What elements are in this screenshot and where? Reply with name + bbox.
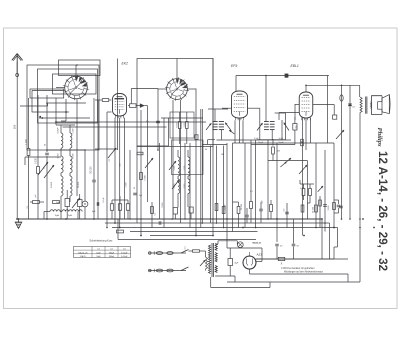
label C3 value [56,202,60,204]
resistor R16 top [301,139,304,146]
IF1 coils lower [178,176,190,208]
svg-text:50.000: 50.000 [177,122,179,128]
capacitor IF1 foot B [189,207,193,219]
capacitor C7 [156,121,160,123]
wire tie y140 [217,139,292,141]
svg-text:1M: 1M [221,154,224,156]
wire IF3 left [248,108,260,140]
wire cathode return y274 [250,274,349,282]
wire rail y219 [17,218,323,220]
capacitor C8 [293,117,297,145]
wire xfmr top to lamp [215,241,237,245]
IF3 trimmer arrows [257,123,289,131]
wire top right y85 [306,85,360,97]
shield box C [59,60,101,76]
svg-text:5.000: 5.000 [184,166,186,171]
resistor R10 [215,204,218,211]
resistor R12 [233,202,240,228]
capacitor C11 [285,212,289,214]
wire x66 [61,99,66,121]
svg-text:50μμF: 50μμF [279,142,284,144]
svg-text:0,1: 0,1 [352,107,355,109]
svg-text:5.000: 5.000 [145,175,147,181]
label misc 29 [109,159,111,162]
wire tie y160 [268,160,307,162]
resistor R13 [250,196,253,223]
power transformer primary [209,245,211,274]
wire S2 leads [158,59,196,90]
wire y146 tie [137,145,169,147]
label R25 [277,151,280,153]
label misc 9 [313,206,315,213]
label AZ1 [256,253,263,257]
wire rail y227 [112,227,338,229]
node ladder dots [39,111,67,123]
label misc 27 [35,194,37,198]
resistor R1 [27,98,30,219]
wire ladder y122 [56,121,206,123]
resistor R4 [178,112,181,144]
label misc 28 [44,167,46,169]
label misc 2 [120,162,122,166]
resistor R5 [186,112,189,144]
power transformer core [212,243,214,277]
label IF3 feet [258,142,283,144]
svg-text:AZ1: AZ1 [256,253,263,257]
svg-text:380μF: 380μF [109,256,115,258]
oscillator box [118,59,214,151]
label misc 22 [73,129,75,134]
trimmer C-T6 arrow [336,130,344,139]
wire top cap rail y75 [236,74,329,143]
mains lead upper [149,251,187,255]
svg-text:50μ: 50μ [296,125,298,128]
svg-text:0.0500: 0.0500 [51,182,53,188]
label choke 5uH [55,215,72,217]
capacitor C19 [292,219,300,259]
wire bottom frame [211,282,360,288]
audio coupling R27 [302,184,305,200]
wire ladder y127 [63,126,167,128]
resistor R6 [140,173,147,181]
capacitor C9 [245,208,249,223]
label EK2 [122,62,129,66]
wire HT drop right A [321,219,323,259]
fuse F2 [167,252,173,255]
resistor R24 marked X [278,257,285,265]
svg-text:2×50μF: 2×50μF [121,255,128,258]
label misc 21 [58,129,60,134]
resistor R19 [319,200,322,206]
resistor R25 detector [272,147,275,161]
wire y150 tie [47,149,85,151]
svg-text:1.000: 1.000 [26,138,28,144]
svg-text:X: X [281,262,283,266]
shield box D [53,74,97,94]
wire IF3 right [275,113,286,140]
label misc 19 [221,154,224,156]
capacitor C2 [92,98,96,219]
svg-text:Wicklungen auf dem Netztransfo: Wicklungen auf dem Netztransformator [284,271,323,274]
IF can 1 box [172,140,204,175]
wire EF9 leads [222,108,240,143]
svg-text:MA23-51: MA23-51 [253,242,262,245]
svg-text:Philips: Philips [376,128,383,147]
label misc 8 [284,208,286,212]
svg-text:50.000: 50.000 [313,206,315,213]
wire tie y143 [233,142,335,144]
capacitor C18 [275,244,283,259]
wire x107b [107,112,112,228]
svg-text:EF9: EF9 [231,64,237,68]
node dots rails [16,218,375,236]
IF3 coils [264,122,275,140]
filament choke pair [44,210,82,219]
svg-text:Scheinleistung Kurz: Scheinleistung Kurz [90,239,114,243]
label misc 26 [78,182,80,188]
coil L2 pair [61,148,72,173]
svg-text:5μH: 5μH [55,215,59,217]
wire x85 [84,150,86,219]
tube V1 EK2 [113,89,159,119]
wire xfmr bottom [211,269,250,288]
wire IF2 double vertical [201,109,203,228]
svg-text:5.000: 5.000 [162,202,164,208]
svg-text:0,1μF: 0,1μF [103,197,105,203]
svg-text:EBL1: EBL1 [291,64,299,68]
volume pot detector [280,158,291,167]
capacitor C15 [97,202,99,206]
wire y157 tie [25,157,61,165]
grid network box [170,112,194,138]
IF1 trimmer arrows [169,161,179,189]
label misc 24 [73,154,75,159]
svg-text:5.000: 5.000 [174,166,176,171]
mains lead lower [149,269,187,273]
capacitor IF1 foot A [173,208,177,220]
mains switch [181,247,189,271]
node dots extra [46,64,361,228]
wire x147 [147,106,149,202]
svg-text:0.030: 0.030 [36,157,38,163]
trimmer C-T5 arrow [108,148,116,158]
svg-text:5.000: 5.000 [73,154,75,159]
voltage selector [200,251,208,271]
label lamp [253,242,262,245]
electrolytic C4 [78,194,83,219]
connector jack [82,201,88,207]
ground symbol left [15,218,22,228]
svg-text:12A-29: 12A-29 [80,255,86,258]
wire ladder y112 [32,111,69,113]
svg-text:0.050: 0.050 [58,129,60,134]
resistor on x196 [195,135,198,140]
title Philips [376,128,383,147]
wire y149 tie [95,148,118,150]
resistor R20 [30,201,44,204]
capacitor C1 [45,95,49,219]
label misc 17 [250,191,253,193]
label R1 value [26,138,28,144]
electrolytic C17 [228,248,233,276]
label misc 1 [103,197,105,203]
svg-text:50.000: 50.000 [78,182,80,188]
wire AZ1 output [256,258,349,260]
trimmer C-T3 arrow [72,198,80,208]
wire ladder y118 [39,117,90,119]
svg-text:0,5: 0,5 [146,121,149,123]
trimmer C-T2 arrow [44,165,54,178]
label misc 12 [27,205,29,209]
label misc 11 [92,211,96,213]
svg-text:8μF: 8μF [235,263,239,265]
label R4 value [177,122,186,128]
band switch S2 [165,77,189,101]
svg-text:X Wird bei Geräten mit gedreht: X Wird bei Geräten mit gedrehten [281,267,315,270]
wire antenna lead [16,62,19,219]
title model number [376,151,389,271]
svg-text:5μH: 5μH [68,215,72,217]
wire IF3 bottom [251,140,295,145]
svg-text:5.000: 5.000 [184,123,186,128]
label misc 15 [146,121,149,123]
label cluster right [254,138,303,190]
label misc 25 [51,182,53,188]
wire rail y235 [150,235,213,237]
capacitor C6 [133,193,143,197]
label misc 7 [262,199,264,203]
diode detector arrow [140,104,148,108]
resistor R26 small [137,152,143,155]
shield box E [30,89,64,98]
wire y118 tie [161,117,203,119]
wire ladder y103 [46,102,86,104]
svg-text:1M: 1M [277,151,280,153]
resistor R2 [37,95,40,219]
capacitor C13 [339,206,343,208]
svg-text:1.000: 1.000 [126,183,128,188]
wire EBL1 leads [279,105,337,151]
resistor R9 [151,143,160,219]
wire rectifier top [227,248,262,262]
label misc 3 [134,186,136,189]
volume pot arrow [299,165,307,174]
svg-text:5.000: 5.000 [73,129,75,134]
audio coupling R28 [307,184,311,203]
coil L1 pair [56,125,75,148]
wire mid verticals [130,58,213,236]
wire EK2 pins down [115,118,124,228]
label misc 10 [328,205,330,211]
label misc 30 [126,183,128,188]
fuse-like oval right [340,95,343,101]
resistor R18 [315,205,318,212]
label misc 4 [155,212,157,216]
IF2 coils [202,109,227,145]
speaker [370,95,390,115]
coil L3 pair [61,173,72,219]
svg-text:50μμF: 50μμF [258,142,263,144]
label misc 18 [296,125,298,128]
svg-text:0,1: 0,1 [250,191,253,193]
label misc 14 [57,128,59,130]
tube V3 EBL1 [299,92,313,120]
label misc 16 [205,149,207,151]
resistor R23 mains [189,250,206,252]
fuse F1 [156,252,162,255]
rectifier tube V4 AZ1 [243,252,256,269]
wire rail y231 [130,231,258,233]
wire EK2 anode lead [128,105,130,107]
svg-text:0.050: 0.050 [184,184,186,189]
fuse F3 [156,269,162,272]
wire ladder y106 [20,103,48,106]
svg-text:30: 30 [44,167,46,169]
svg-text:12 A-14, - 26, - 29, - 32: 12 A-14, - 26, - 29, - 32 [376,151,389,271]
svg-text:0.1: 0.1 [109,159,111,162]
output transformer [360,97,367,114]
wire S1 leads [56,65,76,88]
label C17 value [235,263,239,265]
svg-text:12A-14,-26: 12A-14,-26 [78,251,87,254]
svg-text:0.050: 0.050 [58,154,60,159]
trimmer C-T1 arrow [38,162,48,175]
svg-text:EK2: EK2 [122,62,129,66]
svg-text:30: 30 [205,149,207,151]
label misc 13 [45,143,47,146]
svg-text:380μF: 380μF [109,252,115,254]
label misc 5 [225,204,227,210]
label misc 6 [241,203,243,210]
label IF1 values [174,166,186,189]
band switch S1 [63,75,88,100]
label EF9 [231,64,237,68]
resistor R22 [117,230,124,233]
table impedance values [74,239,131,258]
dial lamp [237,242,243,248]
svg-text:0,7: 0,7 [300,188,303,190]
svg-text:50.000: 50.000 [91,166,93,174]
capacitor C14 [348,104,355,109]
shield box A [27,65,99,150]
IF2 trimmer arrows [206,123,235,134]
wire x56 [32,91,65,126]
resistor bank [110,196,129,219]
wire HT drop right B [330,223,338,259]
tube V2 EF9 [232,91,248,120]
resistor R17 [301,205,304,212]
label EBL1 [291,64,299,68]
label R2 value [36,157,38,163]
label misc 23 [58,154,60,159]
svg-text:0,1μF: 0,1μF [225,204,227,210]
svg-text:5.000: 5.000 [328,205,330,211]
resistor R14 [270,200,273,219]
svg-text:0.050: 0.050 [174,184,176,189]
svg-text:100: 100 [13,124,17,129]
IF1 coils upper [178,150,190,176]
resistor R11 [222,207,225,214]
power transformer secondary [215,244,217,273]
resistor R21 [53,201,60,204]
capacitor C10 [259,202,263,223]
wire S1 stem [76,99,78,196]
fuse F4 [167,269,173,272]
wire x98 [97,100,99,219]
capacitor C5 [130,104,141,108]
antenna [12,54,23,75]
RC pair [333,200,341,213]
capacitor C16 [159,221,161,225]
svg-text:50.000: 50.000 [241,203,243,210]
trimmer C-T4 arrow [145,158,153,168]
wire IF2 top [208,108,228,110]
electrolytic C3 [65,190,70,219]
svg-text:2×10μF: 2×10μF [121,251,128,254]
wire rail y223 [105,222,330,224]
label misc 20 [162,202,164,208]
wire audio box [300,180,323,192]
capacitor C12 [323,205,327,207]
wire heater rail y239 [118,219,256,240]
wire supply line y259 [256,258,335,260]
resistor R3 grid [95,99,112,102]
wire right verticals [217,85,361,282]
note text [281,267,323,274]
label C2 value [91,166,93,174]
shield box B [38,69,98,123]
label antenna 100cm [13,124,17,129]
